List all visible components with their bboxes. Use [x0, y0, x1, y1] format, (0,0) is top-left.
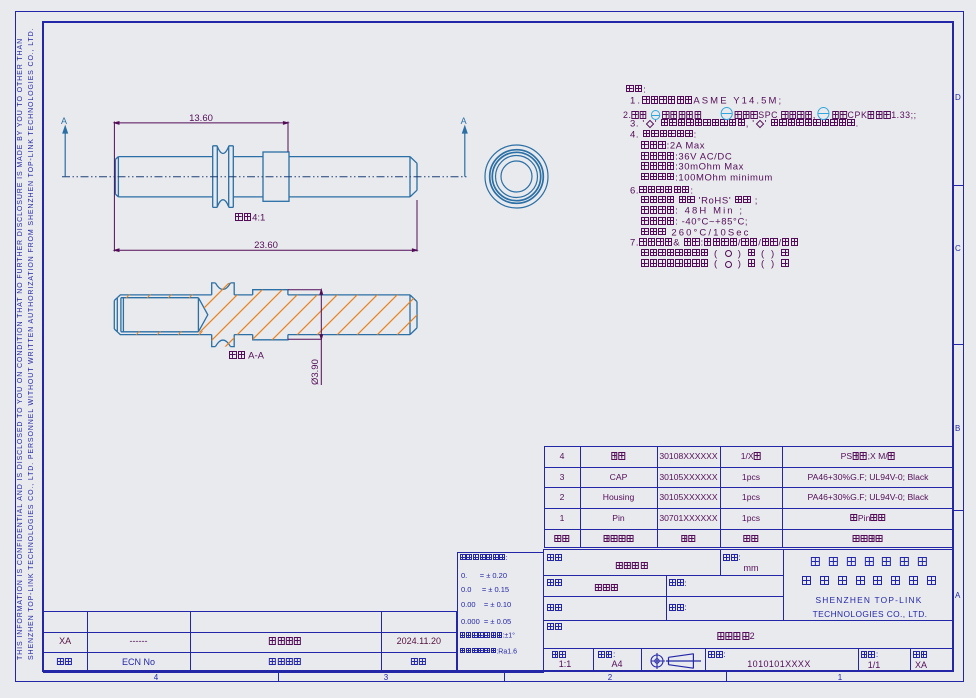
projection angle symbol [643, 646, 707, 672]
svg-text:A: A [61, 116, 67, 126]
revision table [43, 611, 457, 673]
BOM row 2: Housing [560, 493, 565, 502]
dimension 13.60 [114, 122, 288, 252]
dim text 13.60 [189, 114, 213, 124]
note line 9 [641, 173, 773, 183]
end view concentric circles [485, 145, 548, 208]
note line 2 [630, 96, 783, 106]
svg-text:A: A [461, 116, 467, 126]
BOM parts table [544, 446, 954, 548]
note line 6 [641, 141, 705, 151]
note line 2 with SPC symbols [623, 107, 939, 121]
pin collar [263, 152, 289, 201]
company name block [807, 557, 931, 569]
BOM row 3: CAP [560, 473, 565, 482]
note line 16 [641, 249, 790, 259]
note line 12 [641, 206, 744, 216]
label section A-A [229, 351, 264, 361]
note line 10 [630, 186, 694, 196]
note line 7 [641, 152, 732, 162]
dimension D3.90 [288, 290, 323, 385]
note line 4 [630, 119, 859, 129]
confidentiality notice column 2 [28, 40, 35, 660]
note line 14 [641, 228, 751, 238]
dim text 23.60 [254, 241, 278, 251]
BOM row 0: header [554, 534, 569, 543]
svg-text:Ø3.90: Ø3.90 [310, 359, 321, 385]
revision row XA [59, 637, 71, 646]
dimension 23.60 [114, 200, 417, 252]
note line 11 [641, 196, 758, 206]
note line 8 [641, 162, 744, 172]
note line 13 [641, 217, 748, 227]
title block [543, 549, 954, 673]
zone numbers bottom margin [154, 674, 158, 682]
pin spool flange [213, 146, 234, 208]
note line 5 [630, 130, 697, 140]
label scale 4:1 [235, 213, 265, 223]
socket wall hatch ticks [126, 294, 203, 335]
BOM row 1: Pin [560, 514, 565, 523]
note line 17 [641, 259, 790, 269]
zone letters right margin [955, 94, 961, 102]
confidentiality notice column 1 [17, 40, 24, 660]
BOM row 4: 编带 [560, 452, 565, 461]
section arrow right A [463, 127, 467, 177]
note line 1 [626, 85, 646, 95]
section arrow left A [63, 127, 67, 177]
revision row header [57, 658, 73, 667]
pin main view outline [115, 157, 417, 197]
centerline main view [62, 176, 468, 178]
section view outline [114, 283, 417, 347]
note line 15 [630, 238, 799, 248]
tolerance box [457, 552, 544, 673]
